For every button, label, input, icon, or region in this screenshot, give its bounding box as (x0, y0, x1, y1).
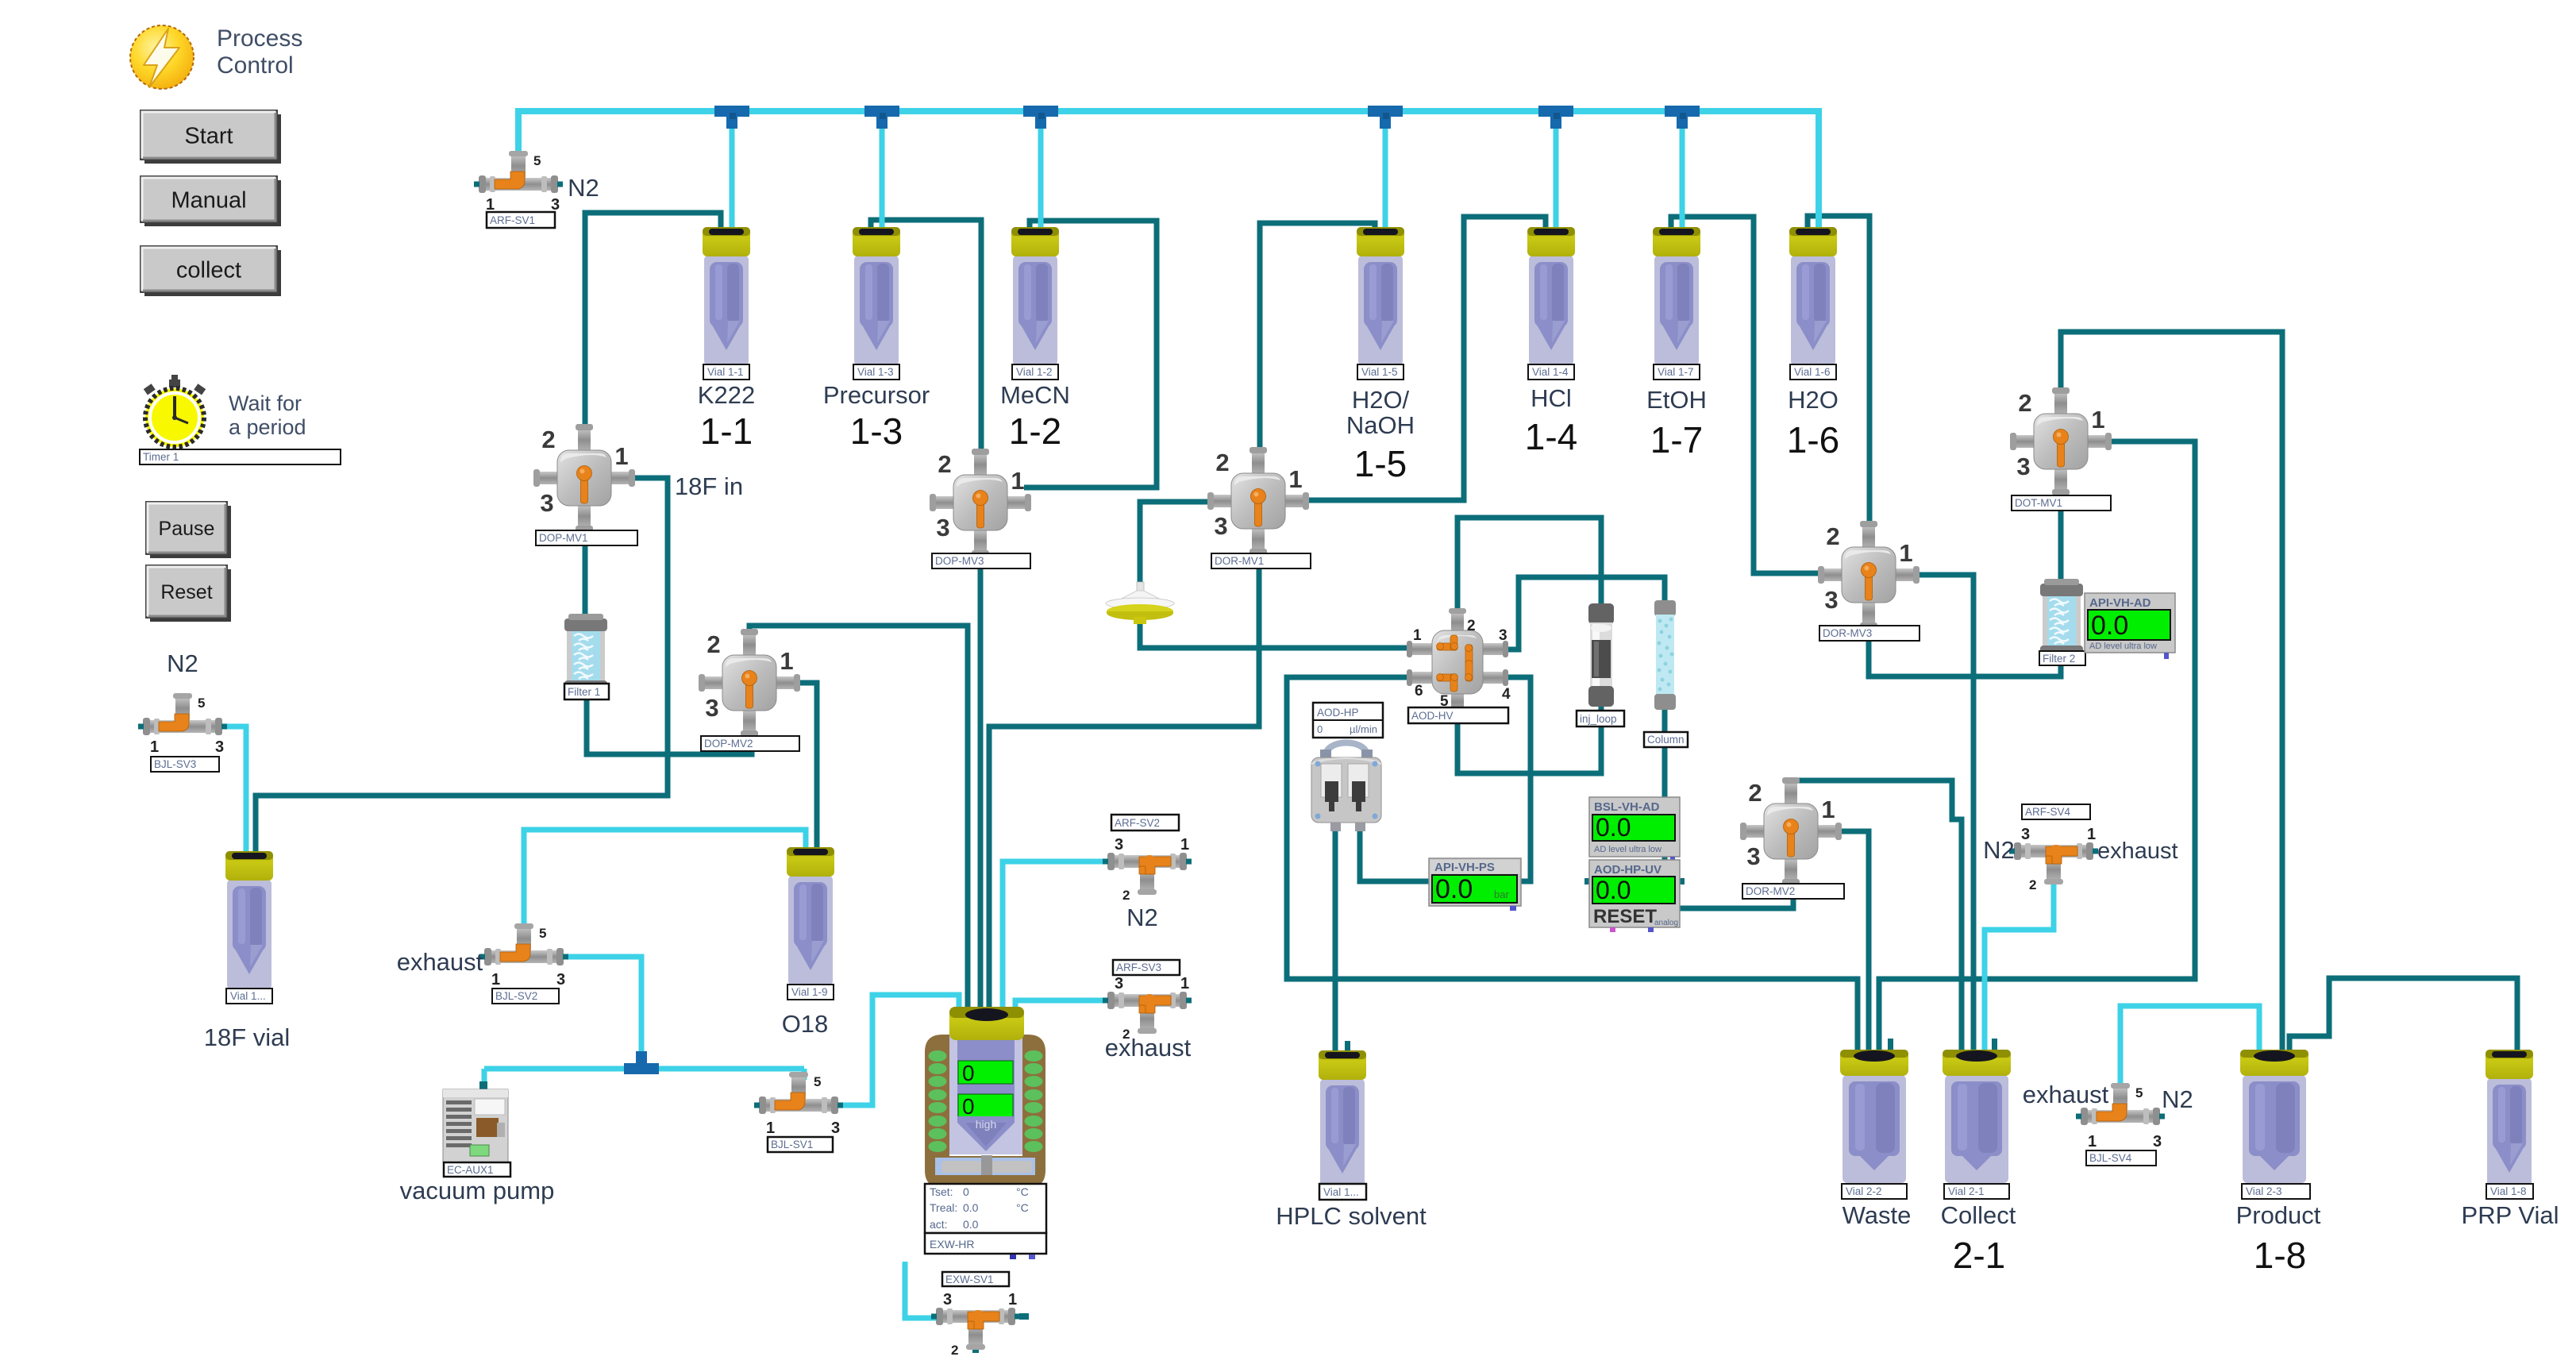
svg-text:3: 3 (2153, 1133, 2162, 1150)
svg-text:1: 1 (491, 971, 500, 989)
svg-text:1-7: 1-7 (1650, 419, 1703, 461)
svg-text:BJL-SV3: BJL-SV3 (154, 758, 196, 770)
svg-text:N2: N2 (1983, 836, 2015, 864)
label box ARF-SV2 (1111, 815, 1179, 831)
label box Vial 1-8 (2486, 1184, 2533, 1199)
svg-text:collect: collect (176, 257, 241, 283)
svg-text:2: 2 (1467, 618, 1476, 634)
svg-text:3: 3 (1115, 836, 1123, 854)
svg-text:HPLC solvent: HPLC solvent (1276, 1202, 1427, 1230)
label box ARF-SV4 (2022, 804, 2090, 819)
label box EC-AUX1 (444, 1162, 510, 1177)
svg-text:1-6: 1-6 (1787, 419, 1839, 461)
label box DOP-MV2 (701, 736, 799, 751)
svg-text:Treal:: Treal: (930, 1201, 957, 1214)
wire BJL-SV4 top to Product vial (2120, 1006, 2259, 1091)
label box DOT-MV1 (2012, 495, 2111, 511)
svg-text:2: 2 (951, 1343, 958, 1358)
label box Vial 1... (226, 989, 272, 1004)
button Pause (146, 502, 231, 558)
display API-VH-AD (2085, 593, 2175, 659)
label box ARF-SV1 (487, 212, 555, 228)
stub EXW-SV1 port 2 (972, 1342, 979, 1353)
wire AOD-HV port 3 to Column top (1488, 577, 1665, 649)
svg-text:N2: N2 (2162, 1085, 2193, 1113)
svg-text:K222: K222 (698, 381, 755, 409)
valve BJL-SV4 (2076, 1083, 2165, 1150)
svg-text:AD level ultra low: AD level ultra low (1594, 845, 1662, 854)
label box Vial 1-5 (1357, 364, 1404, 380)
svg-text:EXW-HR: EXW-HR (930, 1238, 975, 1251)
display API-VH-PS (1429, 858, 1521, 911)
stub HPLC vial cap (1345, 1041, 1350, 1052)
svg-text:2: 2 (1122, 888, 1130, 903)
svg-text:DOT-MV1: DOT-MV1 (2015, 497, 2062, 509)
svg-text:3: 3 (943, 1291, 952, 1308)
svg-text:exhaust: exhaust (2023, 1081, 2109, 1108)
svg-text:1: 1 (1008, 1291, 1017, 1308)
wire Column bottom to UV to DOR-MV2 bottom (1665, 707, 1793, 908)
wire ARF-SV3 left to reactor (1015, 1000, 1111, 1010)
wire BJL-SV1 right to reactor left (835, 995, 959, 1105)
svg-text:inj_loop: inj_loop (1580, 713, 1617, 725)
valve BJL-SV1 (754, 1072, 843, 1137)
tee connector above vial 1-7 (1665, 106, 1700, 129)
svg-text:Wait for: Wait for (229, 391, 302, 415)
wire syringe filter to AOD-HV port 1 (1140, 618, 1429, 648)
valve ARF-SV1 (474, 151, 563, 214)
wire DOP-MV1 port 1 to 18F vial (256, 478, 668, 857)
svg-text:6: 6 (1415, 683, 1423, 699)
button Reset (146, 565, 231, 622)
valve ARF-SV4 (2009, 826, 2098, 892)
svg-text:1-5: 1-5 (1354, 443, 1407, 484)
wire manifold drop to vial 1-1 (730, 119, 735, 235)
svg-text:ARF-SV4: ARF-SV4 (2025, 806, 2071, 818)
svg-text:0: 0 (963, 1185, 969, 1198)
valve DOP-MV1 (533, 424, 635, 532)
svg-text:3: 3 (2021, 826, 2030, 843)
svg-text:3: 3 (1499, 627, 1507, 644)
label Wait for a period (229, 391, 306, 439)
svg-text:Vial 1-6: Vial 1-6 (1794, 366, 1831, 378)
vial 1-4 HCl (1527, 227, 1575, 365)
label box DOR-MV1 (1211, 553, 1311, 568)
label box Vial 1-9 (787, 985, 834, 1000)
svg-text:0.0: 0.0 (2091, 611, 2128, 641)
svg-text:Control: Control (217, 52, 294, 79)
18F vial (225, 851, 273, 989)
svg-text:1: 1 (1180, 975, 1189, 992)
svg-text:act:: act: (930, 1218, 948, 1231)
svg-text:1: 1 (2087, 826, 2096, 843)
svg-text:0: 0 (962, 1094, 975, 1119)
svg-text:1: 1 (2088, 1133, 2097, 1150)
wire vacuum tee manifold (484, 1066, 804, 1072)
svg-text:1: 1 (1180, 836, 1189, 854)
svg-text:vacuum pump: vacuum pump (400, 1177, 555, 1204)
valve BJL-SV3 (138, 693, 227, 756)
svg-text:EtOH: EtOH (1646, 386, 1707, 414)
svg-text:DOR-MV2: DOR-MV2 (1746, 885, 1795, 897)
Process Control logo (130, 25, 194, 89)
svg-text:0.0: 0.0 (963, 1218, 979, 1231)
label box BJL-SV4 (2086, 1150, 2156, 1166)
label box Vial 1... HPLC (1319, 1184, 1366, 1200)
label box Vial 2-2 (1842, 1184, 1907, 1199)
label box Column (1644, 732, 1688, 747)
svg-text:3: 3 (831, 1120, 840, 1137)
label box inj_loop (1577, 711, 1624, 726)
svg-text:1-8: 1-8 (2254, 1235, 2306, 1276)
svg-text:1: 1 (1413, 627, 1422, 644)
svg-text:Product: Product (2236, 1201, 2321, 1229)
svg-text:AOD-HV: AOD-HV (1411, 710, 1454, 722)
svg-text:NaOH: NaOH (1346, 411, 1415, 439)
wire vial 1-2 to DOP-MV3 port 1 (1024, 221, 1157, 488)
valve DOR-MV2 (1740, 777, 1842, 885)
display BSL-VH-AD (1589, 797, 1680, 863)
svg-text:N2: N2 (1126, 904, 1158, 931)
svg-text:N2: N2 (167, 649, 198, 677)
wire AOD-HV port 4 to API-VH-PS right (1488, 677, 1531, 881)
tee connector above vial 1-5 (1368, 106, 1403, 129)
valve EXW-SV1 (931, 1291, 1020, 1358)
button Manual (141, 176, 281, 226)
O18 vial (787, 847, 834, 985)
Filter 2 (2040, 579, 2083, 657)
svg-text:DOP-MV2: DOP-MV2 (704, 738, 753, 750)
svg-text:0.0: 0.0 (963, 1201, 979, 1214)
stub Collect vial cap (1992, 1039, 1997, 1051)
svg-text:exhaust: exhaust (397, 948, 483, 976)
svg-text:analog: analog (1654, 919, 1678, 927)
tee connector above vial 1-3 (864, 106, 899, 129)
valve ARF-SV2 (1103, 836, 1192, 903)
wire DOR-MV1 bottom to reactor (989, 527, 1259, 1010)
syringe filter (1106, 582, 1174, 624)
svg-text:3: 3 (551, 196, 560, 214)
wire vial 1-3 to DOP-MV3 port 2 (871, 220, 981, 459)
svg-text:BJL-SV1: BJL-SV1 (771, 1139, 813, 1150)
wire vial 1-7 to DOR-MV3 port 3 (1671, 217, 1826, 573)
vial 1-3 Precursor (853, 227, 900, 365)
svg-text:5: 5 (539, 926, 546, 941)
svg-text:1: 1 (486, 196, 495, 214)
valve DOR-MV3 (1818, 521, 1919, 629)
Collect vial (1943, 1050, 2011, 1183)
svg-text:N2: N2 (568, 174, 599, 202)
wire manifold drop to vial 1-7 (1680, 119, 1685, 235)
svg-text:0.0: 0.0 (1596, 813, 1631, 842)
valve AOD-HV (1407, 608, 1511, 715)
svg-text:3: 3 (556, 971, 565, 989)
svg-text:Waste: Waste (1842, 1201, 1912, 1229)
wire AOD-HP pump to HPLC solvent vial (1333, 829, 1338, 1054)
vial 1-1 K222 (703, 227, 750, 365)
svg-text:RESET: RESET (1593, 906, 1657, 927)
svg-text:1-1: 1-1 (700, 410, 753, 452)
svg-text:O18: O18 (782, 1010, 829, 1038)
svg-text:Filter 2: Filter 2 (2043, 653, 2075, 665)
wire EXW-SV1 feed (905, 1262, 941, 1318)
svg-text:Filter 1: Filter 1 (568, 686, 600, 698)
label box ARF-SV3 (1113, 960, 1180, 975)
svg-text:BJL-SV2: BJL-SV2 (495, 990, 537, 1002)
svg-text:Vial 1-5: Vial 1-5 (1361, 366, 1398, 378)
svg-text:5: 5 (198, 696, 205, 711)
wire DOR-MV3 bottom to Filter 2 bottom (1869, 602, 2061, 676)
PRP vial (2486, 1050, 2533, 1188)
vial 1-6 H2O (1789, 227, 1837, 365)
svg-text:Vial 1...: Vial 1... (230, 990, 266, 1002)
wire DOR-MV2 port 2 to Collect vial (1791, 780, 1962, 1053)
svg-text:EC-AUX1: EC-AUX1 (447, 1164, 494, 1176)
wire AOD-HV port 5 to inj_loop bottom (1457, 699, 1601, 773)
svg-text:exhaust: exhaust (1105, 1034, 1192, 1062)
svg-text:Start: Start (184, 123, 233, 148)
svg-text:Pause: Pause (159, 518, 215, 540)
svg-text:Vial 1-8: Vial 1-8 (2490, 1185, 2527, 1197)
wire DOR-MV1 port 3 to syringe filter (1140, 502, 1215, 592)
wire Filter 1 to DOP-MV2 bottom (587, 683, 752, 754)
svg-text:HCl: HCl (1531, 384, 1572, 412)
valve DOR-MV1 (1207, 447, 1309, 555)
svg-text:0: 0 (962, 1061, 975, 1085)
svg-text:H2O: H2O (1788, 386, 1839, 414)
svg-text:EXW-SV1: EXW-SV1 (945, 1274, 994, 1285)
svg-text:Column: Column (1647, 734, 1685, 746)
svg-text:0.0: 0.0 (1596, 876, 1631, 904)
svg-text:Vial 1-1: Vial 1-1 (707, 366, 744, 378)
wire DOT-MV1 bottom to Filter 2 top (2058, 468, 2064, 586)
svg-text:1-2: 1-2 (1009, 410, 1061, 452)
svg-text:Manual: Manual (171, 187, 246, 213)
tee connector above vial 1-4 (1538, 106, 1573, 129)
label box Filter 1 (564, 684, 609, 699)
stub EXW-SV1 port 1 (1019, 1313, 1029, 1320)
inj_loop (1588, 603, 1614, 707)
label box DOP-MV3 (932, 553, 1030, 568)
svg-text:3: 3 (215, 738, 224, 756)
wire tee drop to vacuum pump (482, 1069, 487, 1089)
wire vial 1-6 to DOR-MV3 port 2 (1808, 216, 1869, 530)
svg-text:Tset:: Tset: (930, 1185, 953, 1198)
svg-text:DOP-MV3: DOP-MV3 (935, 555, 984, 567)
wire vial 1-4 to DOR-MV1 port 1 (1302, 217, 1546, 500)
label box BJL-SV1 (768, 1137, 833, 1152)
svg-text:°C: °C (1016, 1185, 1029, 1198)
wire AOD-HV port 6 to waste line left segment (1287, 677, 1858, 1053)
svg-text:2: 2 (2029, 877, 2036, 892)
wire manifold drop to vial 1-2 (1038, 119, 1044, 235)
svg-text:Timer 1: Timer 1 (143, 451, 179, 463)
svg-text:DOP-MV1: DOP-MV1 (539, 532, 588, 544)
svg-text:DOR-MV1: DOR-MV1 (1215, 555, 1264, 567)
svg-text:5: 5 (2135, 1085, 2143, 1100)
wire vial 1-5 to DOR-MV1 port 2 (1260, 223, 1375, 457)
svg-text:0: 0 (1317, 723, 1323, 735)
svg-text:18F in: 18F in (675, 472, 743, 500)
valve BJL-SV2 (479, 923, 568, 989)
svg-text:4: 4 (1502, 686, 1511, 703)
svg-text:Vial 1...: Vial 1... (1323, 1186, 1359, 1198)
svg-text:ARF-SV2: ARF-SV2 (1115, 817, 1160, 829)
svg-text:Reset: Reset (160, 581, 212, 603)
svg-text:1-3: 1-3 (850, 410, 903, 452)
svg-text:Vial 1-9: Vial 1-9 (791, 986, 828, 998)
svg-text:Vial 1-4: Vial 1-4 (1532, 366, 1569, 378)
svg-text:Process: Process (217, 25, 302, 52)
svg-text:AD level ultra low: AD level ultra low (2089, 642, 2157, 651)
wire Product vial to PRP vial (2289, 978, 2517, 1053)
label box Vial 1-2 (1012, 364, 1058, 380)
label box BJL-SV2 (492, 989, 559, 1004)
wire DOR-MV2 port 1 to Waste vial (1835, 831, 1869, 1053)
svg-text:AOD-HP: AOD-HP (1317, 707, 1359, 719)
vial 1-7 EtOH (1653, 227, 1700, 365)
vial 1-5 H2O/NaOH (1357, 227, 1404, 365)
svg-text:API-VH-PS: API-VH-PS (1434, 861, 1495, 874)
wire N2 manifold main (518, 111, 1819, 235)
svg-text:AOD-HP-UV: AOD-HP-UV (1594, 863, 1662, 877)
svg-text:°C: °C (1016, 1201, 1029, 1214)
wire vial 1-1 to DOP-MV1 port 2 (585, 213, 721, 435)
svg-text:a period: a period (229, 415, 306, 439)
wire BJL-SV2 top to O18 vial (524, 830, 806, 937)
svg-text:5: 5 (533, 153, 541, 168)
svg-text:Precursor: Precursor (823, 381, 930, 409)
stopwatch icon (144, 375, 206, 447)
svg-text:Vial 2-2: Vial 2-2 (1846, 1185, 1882, 1197)
svg-text:1: 1 (766, 1120, 775, 1137)
label box AOD-HV (1408, 707, 1508, 723)
svg-text:3: 3 (1115, 975, 1123, 992)
svg-text:Vial 1-2: Vial 1-2 (1016, 366, 1053, 378)
label box Vial 1-7 (1654, 364, 1700, 380)
wire DOR-MV3 port 1 to Collect vial (1913, 575, 1973, 1053)
svg-text:high: high (976, 1118, 996, 1131)
valve DOT-MV1 (2010, 387, 2112, 495)
tee connector above vial 1-2 (1023, 106, 1058, 129)
label box Filter 2 (2039, 651, 2085, 665)
svg-text:ARF-SV1: ARF-SV1 (490, 214, 535, 226)
svg-text:18F vial: 18F vial (204, 1023, 291, 1051)
svg-text:0.0: 0.0 (1435, 874, 1473, 904)
Filter 1 (564, 614, 607, 692)
svg-text:BSL-VH-AD: BSL-VH-AD (1594, 800, 1660, 814)
svg-text:API-VH-AD: API-VH-AD (2089, 596, 2151, 610)
svg-text:exhaust: exhaust (2097, 838, 2178, 864)
svg-text:MeCN: MeCN (1000, 381, 1070, 409)
label box Vial 1-1 (703, 364, 749, 380)
wire DOP-MV1 bottom to Filter 1 (583, 521, 588, 619)
svg-text:1: 1 (150, 738, 159, 756)
wire DOP-MV2 port 1 to O18 vial (792, 683, 817, 854)
svg-text:Collect: Collect (1941, 1201, 2016, 1229)
wire DOP-MV2 port 2 riser to reactor (749, 626, 968, 1010)
Column (1654, 600, 1676, 710)
wire manifold drop to vial 1-5 (1383, 119, 1388, 235)
valve DOP-MV3 (930, 449, 1031, 557)
svg-text:2-1: 2-1 (1953, 1235, 2005, 1276)
title Process Control (217, 25, 302, 79)
svg-text:bar: bar (1494, 888, 1509, 900)
svg-text:Vial 2-1: Vial 2-1 (1948, 1185, 1985, 1197)
wire tee line to BJL-SV1 top (802, 1069, 807, 1080)
vacuum pump EC-AUX1 (443, 1081, 508, 1162)
wire AOD-HV port 2 to inj_loop top (1457, 518, 1601, 627)
svg-text:5: 5 (814, 1074, 821, 1089)
tee connector above vial 1-1 (714, 106, 749, 129)
svg-text:µl/min: µl/min (1350, 723, 1377, 735)
svg-text:PRP Vial: PRP Vial (2462, 1201, 2559, 1229)
valve ARF-SV3 (1103, 975, 1192, 1042)
wire DOT-MV1 port 1 to Waste right segment (1879, 441, 2195, 1053)
label box BJL-SV3 (151, 757, 219, 772)
label box EXW-SV1 (942, 1272, 1009, 1286)
valve DOP-MV2 (699, 629, 800, 737)
svg-text:DOR-MV3: DOR-MV3 (1823, 627, 1872, 639)
label box DOP-MV1 (536, 530, 637, 545)
svg-text:Vial 1-7: Vial 1-7 (1658, 366, 1694, 378)
svg-text:ARF-SV3: ARF-SV3 (1116, 962, 1161, 973)
label box DOR-MV3 (1819, 626, 1919, 641)
label box Vial 1-3 (853, 364, 899, 380)
svg-text:Vial 2-3: Vial 2-3 (2246, 1185, 2282, 1197)
label box Vial 2-3 (2242, 1184, 2310, 1199)
label box Vial 2-1 (1944, 1184, 2009, 1199)
button Start (141, 110, 281, 164)
tee connector vacuum line (624, 1051, 659, 1074)
wire manifold drop to vial 1-3 (880, 119, 885, 235)
wire manifold drop to vial 1-4 (1554, 119, 1559, 235)
HPLC pump AOD-HP (1311, 743, 1381, 832)
svg-text:H2O/: H2O/ (1352, 386, 1410, 414)
label box Vial 1-6 (1790, 364, 1836, 380)
svg-text:1-4: 1-4 (1525, 416, 1577, 457)
label box Vial 1-4 (1528, 364, 1574, 380)
HPLC solvent vial (1319, 1050, 1366, 1189)
wire BJL-SV2 right to vacuum tee (560, 957, 641, 1064)
vial 1-2 MeCN (1011, 227, 1059, 365)
reactor EXW-HR vessel (925, 1007, 1045, 1189)
stub Waste vial cap (1888, 1039, 1893, 1051)
wire BJL-SV3 to 18F vial (219, 726, 246, 857)
svg-text:BJL-SV4: BJL-SV4 (2089, 1152, 2132, 1164)
wire ARF-SV2 left to reactor (1003, 861, 1111, 1010)
Product vial (2240, 1050, 2308, 1183)
label box AOD-HP flow readout (1313, 703, 1383, 738)
reactor temperature table EXW-HR (925, 1184, 1046, 1259)
button collect (141, 246, 281, 296)
label box DOR-MV2 (1742, 884, 1844, 899)
wire ARF-SV4 bottom to Collect vial (1985, 880, 2054, 1053)
wire DOT-MV1 port 2 to Product vial (2061, 332, 2282, 1053)
svg-text:Vial 1-3: Vial 1-3 (857, 366, 894, 378)
display AOD-HP-UV (1584, 860, 1685, 932)
wire DOP-MV3 bottom to reactor (978, 529, 984, 1010)
wire AOD-HP pump to API-VH-PS left (1360, 829, 1432, 881)
Waste vial (1840, 1050, 1908, 1183)
label box Timer 1 (140, 449, 341, 464)
